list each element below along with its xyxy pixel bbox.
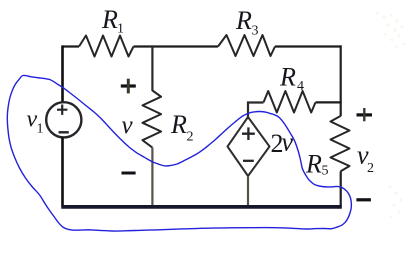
resistor R5 (vertical zigzag) [331,116,350,171]
resistor R3 (zigzag) [218,35,275,56]
svg-text:v: v [122,112,134,139]
plus sign of v2 [357,113,373,116]
svg-text:R: R [170,110,187,139]
voltage source v1 (circle) [46,102,81,137]
wire: dependent source bottom to bottom wire [247,176,249,206]
faint speckle marks, bottom-right corner [389,186,403,219]
svg-text:4: 4 [297,79,304,94]
faint speckle marks, top-right corner [376,12,406,49]
svg-text:R: R [279,63,296,92]
plus sign inside 2v diamond [242,127,255,140]
minus sign of v (below v label) [122,172,136,175]
minus sign of v2 [356,198,371,201]
wire: middle branch, top of R2 [151,45,153,91]
svg-text:5: 5 [322,164,329,179]
plus sign of v (above v label) [121,84,136,87]
svg-text:2: 2 [367,161,374,176]
dependent source 2v (diamond) [228,117,270,176]
wire: top, right segment (R3 to top-right corner) [275,45,342,47]
minus sign inside 2v diamond [243,160,254,162]
wire: right vertical, top (corner to R4 junction to R5) [340,45,342,116]
wire: left vertical, above source v1 [61,45,64,102]
svg-text:1: 1 [37,122,44,137]
svg-text:v: v [282,128,294,157]
plus sign inside v1 [57,105,67,115]
svg-text:1: 1 [117,22,124,37]
svg-text:2: 2 [187,130,194,145]
resistor R1 (zigzag) [79,36,134,57]
wire: top, middle segment (R1 to R3, through node at top of R2) [134,45,219,47]
svg-text:R: R [235,6,252,35]
resistor R2 (vertical zigzag) [143,91,162,148]
wire: bottom (thick ground rail) [61,205,342,209]
wire: R4 row, left corner down to dependent source top [247,101,264,117]
resistor R4 (zigzag) [264,91,316,113]
wire: left vertical, below source v1 [61,138,64,207]
wire: right vertical, bottom (R5 to bottom-right corner) [340,171,342,206]
svg-text:R: R [305,150,322,179]
svg-text:R: R [101,5,118,34]
minus sign inside v1 [59,131,69,133]
wire: R4 row, right segment to right vertical [316,101,342,103]
svg-text:3: 3 [252,24,259,39]
blue freehand loop (hand-drawn selection curve) [7,75,351,231]
wire: middle branch, bottom of R2 [151,148,153,207]
wire: top, left segment (top-left corner to R1) [63,45,80,47]
